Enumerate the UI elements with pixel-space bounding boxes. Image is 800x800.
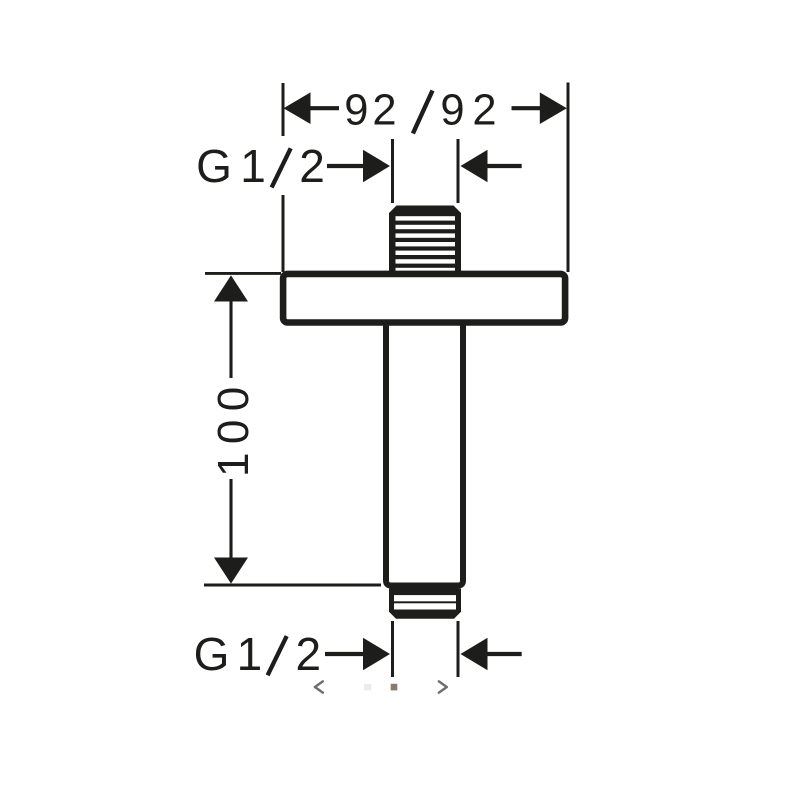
svg-text:100: 100 (209, 378, 258, 477)
svg-text:2: 2 (299, 140, 325, 192)
svg-text:92: 92 (440, 87, 504, 135)
svg-text:2: 2 (296, 628, 322, 680)
svg-text:G1: G1 (194, 628, 270, 680)
svg-text:92: 92 (344, 87, 400, 135)
svg-text:G1: G1 (196, 140, 274, 192)
